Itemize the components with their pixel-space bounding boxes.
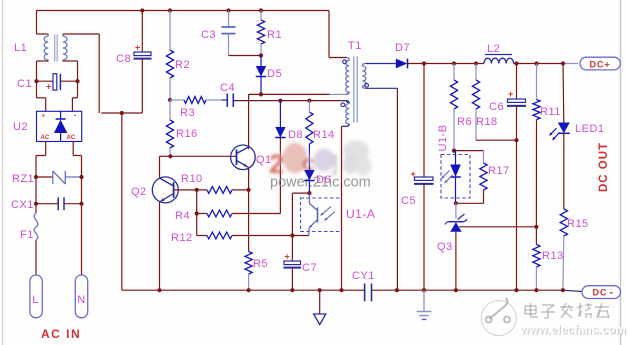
capacitor C1 xyxy=(37,74,78,92)
svg-text:R2: R2 xyxy=(175,59,190,71)
svg-text:F1: F1 xyxy=(20,229,34,241)
capacitor C6 xyxy=(507,64,526,291)
junction dot C1 left xyxy=(34,79,38,83)
resistor R14 xyxy=(306,101,313,170)
svg-text:D6: D6 xyxy=(316,174,331,186)
terminal L xyxy=(30,275,42,318)
wire bridge node horizontal xyxy=(101,112,142,114)
label R13 xyxy=(542,250,564,262)
wire C1 to U2 right pin xyxy=(72,98,77,112)
label L1 xyxy=(14,42,27,54)
label D7 xyxy=(395,42,410,54)
svg-text:N: N xyxy=(77,294,85,306)
junction dot D6 bottom xyxy=(307,191,311,195)
optocoupler U1-A phototransistor xyxy=(309,193,335,235)
capacitor C3 xyxy=(222,11,236,56)
svg-text:DC OUT: DC OUT xyxy=(598,142,610,192)
svg-text:R17: R17 xyxy=(488,165,510,177)
resistor R11 xyxy=(533,64,540,227)
svg-text:CY1: CY1 xyxy=(352,270,375,282)
optocoupler U1-B LED xyxy=(442,151,461,204)
svg-text:L2: L2 xyxy=(487,43,500,55)
wire Q2 base to R10 xyxy=(174,189,207,191)
svg-text:AC: AC xyxy=(41,135,50,141)
junction dot C8 top xyxy=(140,8,144,12)
terminal N xyxy=(75,275,87,318)
capacitor C7 xyxy=(284,193,302,290)
junction dot Q1 emitter node xyxy=(247,188,251,192)
svg-text:www.elecfans.com: www.elecfans.com xyxy=(520,325,627,337)
label R11 xyxy=(540,106,561,118)
junction dot R4 left xyxy=(195,211,199,215)
junction dot bridge node xyxy=(120,111,124,115)
junction dot R11 top xyxy=(534,61,538,65)
label R5 xyxy=(253,258,268,270)
svg-text:RZ1: RZ1 xyxy=(12,173,34,185)
svg-text:C4: C4 xyxy=(220,82,235,94)
junction dot R15 bottom xyxy=(561,288,565,292)
svg-text:L1: L1 xyxy=(14,42,27,54)
svg-text:R4: R4 xyxy=(175,210,190,222)
inductor L1 core xyxy=(55,35,58,62)
svg-text:DC+: DC+ xyxy=(590,59,611,69)
label R10 xyxy=(181,173,203,185)
junction dot CX1 right xyxy=(79,202,83,206)
label C7 xyxy=(302,262,317,274)
wire top rail right drop to T1 primary xyxy=(329,11,347,58)
svg-text:R6: R6 xyxy=(457,116,472,128)
label RZ1 xyxy=(12,173,34,185)
svg-text:AC IN: AC IN xyxy=(41,327,81,341)
label C1 xyxy=(17,78,32,90)
wire Q1 collector vertical xyxy=(248,94,250,149)
svg-text:D5: D5 xyxy=(267,68,282,80)
resistor R13 xyxy=(533,227,540,290)
label C3 xyxy=(201,29,216,41)
capacitor CY1 xyxy=(365,283,372,301)
transistor Q1 xyxy=(231,145,256,170)
label R16 xyxy=(176,128,198,140)
wire Q3 ref xyxy=(459,226,536,228)
wire L1 top-right to node xyxy=(63,34,99,113)
svg-text:R13: R13 xyxy=(542,250,564,262)
inductor L1 left winding xyxy=(44,34,48,61)
wire RZ1 to CX1 left xyxy=(35,177,37,204)
junction dot D8 top xyxy=(278,99,282,103)
optocoupler U1-A box xyxy=(301,198,342,232)
label D5 xyxy=(267,68,282,80)
svg-text:]: ] xyxy=(331,152,338,175)
label CY1 xyxy=(352,270,375,282)
label R1 xyxy=(267,29,282,41)
svg-text:R1: R1 xyxy=(267,29,282,41)
svg-text:U2: U2 xyxy=(13,121,28,133)
junction dot C6 top xyxy=(514,61,518,65)
diode D6 xyxy=(304,170,314,193)
resistor R18 xyxy=(472,64,479,141)
resistor R15 xyxy=(560,133,567,290)
varistor RZ1 xyxy=(36,171,82,184)
junction dot C3 top xyxy=(226,8,230,12)
svg-text:C6: C6 xyxy=(489,101,504,113)
bridge rectifier U2 xyxy=(37,111,82,141)
junction dot R1 top xyxy=(259,8,263,12)
junction dot Q3 top xyxy=(454,201,458,205)
diode D7 xyxy=(396,59,408,69)
wire F1 to L terminal xyxy=(35,240,37,275)
terminal DC+ xyxy=(580,57,620,70)
junction dot RZ1 right xyxy=(79,175,83,179)
label DC OUT xyxy=(598,142,610,192)
capacitor C8 xyxy=(134,11,152,114)
svg-text:R14: R14 xyxy=(313,129,335,141)
svg-text:R10: R10 xyxy=(181,173,203,185)
junction dot C6 bottom xyxy=(514,288,518,292)
label U2 xyxy=(13,121,28,133)
resistor R10 xyxy=(207,187,249,194)
wire L1 bottom-left xyxy=(37,61,49,98)
wire RZ1 to CX1 right xyxy=(81,177,83,204)
junction dot secondary return bottom xyxy=(395,288,399,292)
wire R18 to C6 line xyxy=(476,139,517,141)
label R15 xyxy=(567,218,589,230)
svg-text:R16: R16 xyxy=(176,128,198,140)
label C4 xyxy=(220,82,235,94)
diode D5 xyxy=(256,56,266,95)
label R3 xyxy=(180,107,195,119)
wire T1 secondary bottom return xyxy=(366,88,398,290)
label F1 xyxy=(20,229,34,241)
junction dot R13 bottom xyxy=(534,288,538,292)
junction dot R6 top xyxy=(452,61,456,65)
transformer T1 core xyxy=(354,57,358,123)
svg-text:AC: AC xyxy=(67,135,76,141)
junction dot D5 bottom xyxy=(259,92,263,96)
svg-text:C1: C1 xyxy=(17,78,32,90)
svg-text:C7: C7 xyxy=(302,262,317,274)
junction dot C1 right xyxy=(75,79,79,83)
junction dot C7 top node xyxy=(290,233,294,237)
wire CX1 to N terminal xyxy=(81,204,83,275)
svg-text:DC: DC xyxy=(593,288,608,298)
wire T1 secondary top to D7 xyxy=(365,63,396,65)
junction dot D5 top xyxy=(259,53,263,57)
junction dot aux return bottom xyxy=(339,288,343,292)
junction dot R5 bottom xyxy=(247,288,251,292)
svg-text:+: + xyxy=(508,89,513,99)
svg-text:R18: R18 xyxy=(476,116,498,128)
resistor R2 xyxy=(166,11,173,101)
sheet border left xyxy=(2,0,4,345)
label Q3 xyxy=(437,241,453,253)
junction dot C5 top xyxy=(422,61,426,65)
resistor R16 xyxy=(166,100,173,156)
svg-text:U1-B: U1-B xyxy=(437,124,449,151)
ground signal xyxy=(314,290,326,324)
svg-text:-: - xyxy=(610,287,614,299)
svg-text:C8: C8 xyxy=(116,53,131,65)
svg-text:Q3: Q3 xyxy=(437,241,453,253)
sheet border right xyxy=(620,0,622,345)
wire L1 bottom-right xyxy=(63,61,78,98)
junction dot C7 bottom xyxy=(290,288,294,292)
svg-text:C5: C5 xyxy=(401,195,416,207)
junction dot ground stem xyxy=(318,288,322,292)
capacitor C4 xyxy=(222,94,234,108)
label Q2 xyxy=(131,186,147,198)
transformer T1 primary winding xyxy=(343,58,350,95)
resistor R4 xyxy=(197,210,281,217)
svg-text:-: - xyxy=(74,113,77,120)
capacitor CX1 xyxy=(36,197,82,210)
watermark elecfans url xyxy=(520,325,627,338)
wire R16 node to Q2 collector xyxy=(160,156,171,177)
label Q1 xyxy=(256,154,272,166)
fuse F1 xyxy=(34,204,38,240)
junction dot R10 left node xyxy=(195,188,199,192)
label R2 xyxy=(175,59,190,71)
junction dot R6 bottom xyxy=(452,149,456,153)
wire DC+ rail xyxy=(408,63,579,65)
led LED1 xyxy=(550,64,570,141)
ground earth xyxy=(417,290,432,319)
junction dot R18 top xyxy=(474,61,478,65)
junction dot R16 bottom xyxy=(168,154,172,158)
svg-text:R15: R15 xyxy=(567,218,589,230)
label D6 xyxy=(316,174,331,186)
svg-text:R11: R11 xyxy=(540,106,561,118)
junction dot R18-C6 xyxy=(514,138,518,142)
diode D8 xyxy=(275,101,285,214)
junction dot Q2 emitter bottom xyxy=(157,288,161,292)
junction dot RZ1 left xyxy=(34,175,38,179)
svg-text:Q2: Q2 xyxy=(131,186,147,198)
wire C1 to U2 left pin xyxy=(37,98,46,112)
wire C3 to D5 node xyxy=(229,55,262,57)
label D8 xyxy=(288,129,303,141)
watermark power.21ic.com text xyxy=(270,175,371,191)
wire U2 left pin down xyxy=(36,142,46,178)
svg-text:+: + xyxy=(285,252,290,262)
svg-text:U1-A: U1-A xyxy=(346,207,375,221)
inductor L2 xyxy=(484,55,514,64)
label CX1 xyxy=(11,199,34,211)
resistor R3 xyxy=(170,97,222,104)
wire C4 net horizontal xyxy=(233,101,347,103)
label T1 xyxy=(348,40,362,52)
label LED1 xyxy=(575,123,605,135)
label C6 xyxy=(489,101,504,113)
wire R6 bottom to R17 top xyxy=(454,151,484,163)
svg-text:R3: R3 xyxy=(180,107,195,119)
svg-text:T1: T1 xyxy=(348,40,362,52)
wire Q1 collector net horizontal xyxy=(249,93,348,95)
junction dot Q3 bottom xyxy=(454,288,458,292)
label R18 xyxy=(476,116,498,128)
wire top rail left drop to L1 xyxy=(37,11,49,35)
svg-text:+: + xyxy=(135,43,140,53)
resistor R1 xyxy=(257,11,264,56)
junction dot C5 bottom xyxy=(422,288,426,292)
label U1-A xyxy=(346,207,375,221)
optocoupler U1-B box xyxy=(441,155,470,199)
wire Q1 emitter down xyxy=(248,168,250,190)
wire R16 to Q1 base xyxy=(170,155,236,157)
wire divider vertical xyxy=(196,190,198,236)
wire bus left drop xyxy=(121,113,123,290)
label C8 xyxy=(116,53,131,65)
svg-text:R5: R5 xyxy=(253,258,268,270)
resistor R5 xyxy=(245,190,252,290)
label R17 xyxy=(488,165,510,177)
svg-text:LED1: LED1 xyxy=(575,123,605,135)
svg-text:CX1: CX1 xyxy=(11,199,34,211)
label R12 xyxy=(171,232,193,244)
resistor R6 xyxy=(450,64,457,151)
terminal DC- xyxy=(582,286,621,299)
svg-text:C3: C3 xyxy=(201,29,216,41)
label L2 xyxy=(487,43,500,55)
svg-text:+: + xyxy=(46,82,51,92)
watermark elecfans logo circle xyxy=(481,298,516,336)
wire bottom rail left xyxy=(122,289,365,291)
junction dot R14 top xyxy=(307,99,311,103)
transformer T1 secondary winding xyxy=(362,64,368,89)
svg-text:R12: R12 xyxy=(171,232,193,244)
wire Q2 emitter down xyxy=(159,202,161,290)
junction dot R2-R3-R16 xyxy=(168,98,172,102)
transistor Q2 xyxy=(152,177,178,203)
transformer T1 aux winding xyxy=(341,101,349,127)
wire D6 node to C7 branch xyxy=(292,192,309,194)
junction dot R13 top xyxy=(534,225,538,229)
junction dot CX1 left xyxy=(34,202,38,206)
label AC IN xyxy=(41,327,81,341)
wire T1 aux return xyxy=(341,126,343,290)
junction dot LED1 top xyxy=(561,61,565,65)
capacitor C5 xyxy=(411,64,434,291)
svg-text:D8: D8 xyxy=(288,129,303,141)
watermark elecfans chinese text xyxy=(525,303,610,319)
svg-text:+: + xyxy=(411,169,416,179)
watermark 21ic blobs xyxy=(269,140,373,179)
wire top rail xyxy=(37,10,330,12)
label R4 xyxy=(175,210,190,222)
svg-text:D7: D7 xyxy=(395,42,410,54)
wire U2 right pin down xyxy=(73,142,81,178)
label R14 xyxy=(313,129,335,141)
svg-text:+: + xyxy=(42,114,46,120)
junction dot R2 top xyxy=(168,8,172,12)
inductor L1 right winding xyxy=(63,34,67,61)
shunt regulator Q3 xyxy=(445,203,467,290)
svg-text:L: L xyxy=(32,294,39,306)
label C5 xyxy=(401,195,416,207)
label R6 xyxy=(457,116,472,128)
resistor R17 xyxy=(456,163,487,203)
wire bottom rail right xyxy=(372,290,583,291)
label U1-B xyxy=(437,124,449,151)
resistor R12 xyxy=(197,232,309,239)
